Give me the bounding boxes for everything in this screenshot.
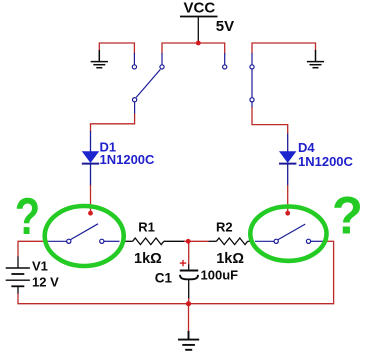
svg-text:VCC: VCC <box>184 0 216 17</box>
svg-text:D4: D4 <box>298 140 315 155</box>
ground (top right) <box>307 50 324 68</box>
wire: J1 common to D1 anode <box>91 114 135 132</box>
wire: D1 cathode down to node <box>90 185 92 213</box>
polarity mark + (C1) <box>180 260 186 266</box>
resistor R2 <box>209 238 251 245</box>
junction dot: mid rail / C1 top <box>186 239 191 244</box>
ground (top left) <box>91 50 108 68</box>
wire: battery V1 plus to switch J3 <box>18 241 48 257</box>
switch J3 (in left ellipse) <box>48 224 120 244</box>
wire: J4 to right rail <box>326 240 334 242</box>
wire: VCC rail (left throw B to right throw A) <box>162 43 225 54</box>
svg-text:R2: R2 <box>216 219 233 234</box>
junction dot: D1 node <box>88 211 93 216</box>
wire: battery V1 minus to bottom rail <box>18 294 189 304</box>
diode D4 <box>279 134 296 186</box>
switch J2 (top right SPDT) <box>223 53 255 108</box>
wire: bottom rail to ground <box>188 304 190 332</box>
capacitor C1 <box>180 241 198 303</box>
switch J4 (in right ellipse) <box>255 224 327 243</box>
svg-text:?: ? <box>332 187 363 246</box>
power symbol VCC <box>180 17 218 43</box>
svg-text:1kΩ: 1kΩ <box>134 251 162 267</box>
resistor R1 <box>122 238 185 245</box>
svg-text:R1: R1 <box>138 219 155 234</box>
battery V1 <box>6 257 30 295</box>
svg-text:1N1200C: 1N1200C <box>100 152 156 167</box>
wire: R1 to R2 rail <box>184 240 209 242</box>
junction dot: bottom rail / ground <box>186 301 191 306</box>
switch J1 (top left SPDT) <box>132 53 164 114</box>
svg-text:V1: V1 <box>32 258 48 273</box>
svg-text:1N1200C: 1N1200C <box>298 154 354 169</box>
svg-text:5V: 5V <box>216 18 234 35</box>
wire: D4 cathode down to node <box>287 185 289 213</box>
wire: left ground to switch J1 throw A <box>99 43 134 54</box>
annotation ellipse (right) <box>250 207 326 261</box>
junction dot: D4 node <box>285 211 290 216</box>
svg-text:C1: C1 <box>155 271 173 286</box>
svg-text:100uF: 100uF <box>201 267 239 282</box>
wire: bottom rail right half <box>189 241 334 304</box>
wire: right switch J2 throw B to right ground <box>252 43 316 54</box>
junction dot: VCC node <box>196 41 201 46</box>
svg-text:1kΩ: 1kΩ <box>216 251 244 267</box>
diode D1 <box>82 131 99 186</box>
ground (bottom) <box>178 331 199 350</box>
annotation ellipse (left) <box>45 206 124 266</box>
wire: J2 common to D4 anode <box>252 107 288 134</box>
svg-text:12 V: 12 V <box>32 275 59 290</box>
svg-text:?: ? <box>15 186 40 245</box>
